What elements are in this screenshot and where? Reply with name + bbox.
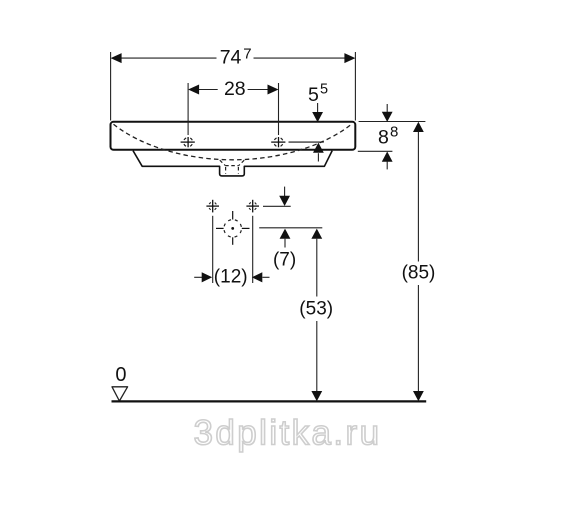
dimension line 74.7 [111,53,356,63]
mounting hole right [246,200,259,213]
dimension (7) arrow up [280,229,291,248]
mounting hole left [206,200,219,213]
floor datum line [112,400,427,402]
dimension 8.8 top extension line [359,121,426,123]
dimension (7) top reference: arrow down [279,187,290,206]
basin apron with drain boss [133,151,332,176]
svg-text:(12): (12) [214,266,248,287]
faucet deck reference line [289,141,324,143]
svg-text:(85): (85) [402,263,436,284]
svg-text:8: 8 [378,127,389,149]
svg-text:74: 74 [220,47,242,69]
(7) top reference line [263,205,291,207]
drain funnel dashed lines [220,160,244,174]
dimension line 28 [188,85,278,95]
arrow 5.5 up (to deck line) [313,143,324,162]
label 8.8 [378,123,398,148]
svg-text:3dplitka.ru: 3dplitka.ru [194,414,382,453]
dimension 28 extension line left [187,83,189,135]
dimension (12) arrows [194,272,269,282]
extension line from right mounting hole [252,216,254,283]
arrow 8.8 up [382,152,393,170]
datum triangle [112,387,128,401]
label 74.7 [220,46,252,69]
svg-text:(7): (7) [273,250,296,271]
svg-text:28: 28 [224,78,246,100]
arrow 5.5 down [312,103,323,122]
faucet hole right [271,137,285,147]
basin outline (front view top rim) [111,122,356,150]
svg-text:5: 5 [320,82,328,98]
label 5.5 [308,82,328,106]
extension line from left mounting hole [212,216,214,283]
svg-text:0: 0 [115,364,126,386]
svg-text:8: 8 [390,123,398,140]
dimension 28 extension line right [278,83,280,135]
svg-text:5: 5 [308,84,319,106]
dimension 74.7 extension line right [354,52,356,121]
dimension 8.8 bottom extension line [358,150,393,152]
drain hole symbol [216,211,250,245]
arrow 8.8 down [382,104,393,122]
dimension (85) vertical line with arrows [413,122,424,401]
dimension (53) vertical line with arrows [311,229,322,402]
svg-text:7: 7 [243,46,251,63]
faucet hole left [181,137,195,147]
(7) bottom reference line (drain centre level) [259,227,322,229]
dimension 74.7 extension line left [110,52,112,121]
svg-text:(53): (53) [299,299,333,320]
bowl interior dashed curve [114,124,352,160]
